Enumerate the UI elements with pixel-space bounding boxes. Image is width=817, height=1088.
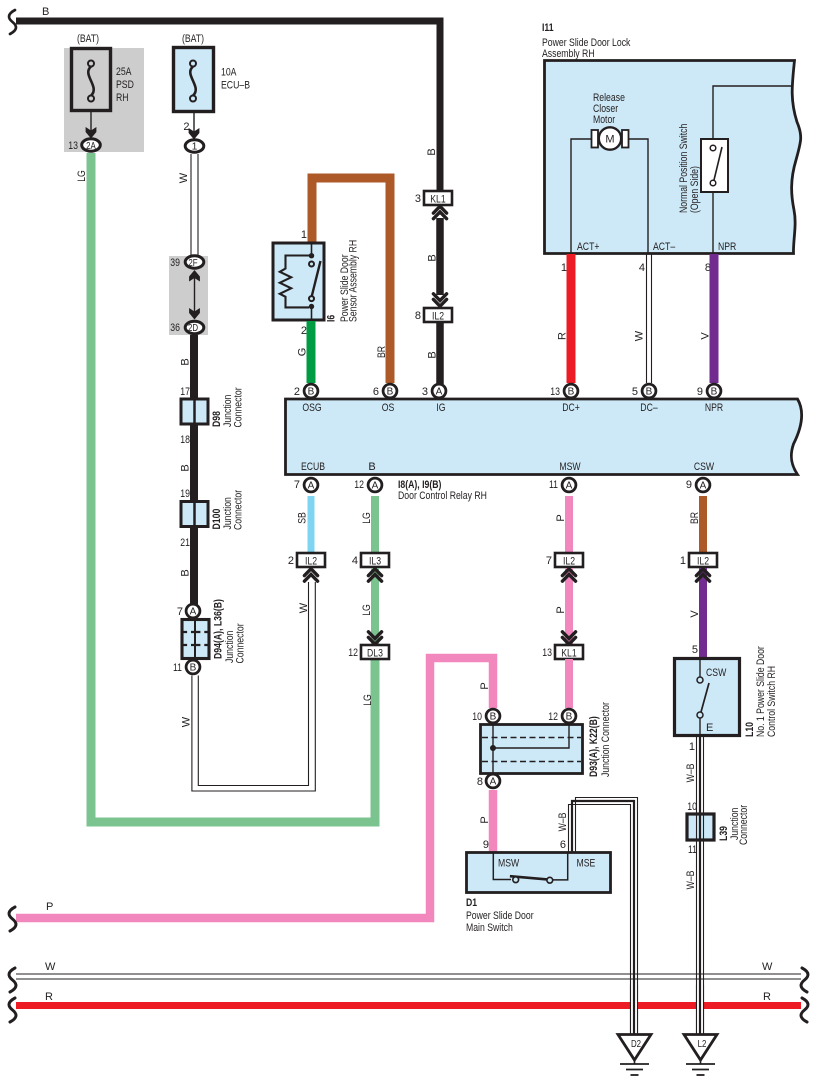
- wire P from IL2 to KL1: [555, 568, 569, 645]
- svg-text:12: 12: [548, 711, 558, 723]
- relay top pin 2 (B) OSG: [294, 384, 318, 398]
- svg-text:D1: D1: [466, 897, 477, 909]
- connector IL2 pin 1: [680, 553, 717, 568]
- normal position switch (open side): [678, 124, 728, 213]
- svg-text:MSE: MSE: [577, 858, 596, 870]
- connector pin (1): [185, 140, 204, 153]
- svg-text:W: W: [298, 602, 310, 613]
- relay top pin 9 (B) NPR: [697, 384, 721, 398]
- svg-text:NPR: NPR: [718, 241, 736, 253]
- svg-text:LG: LG: [361, 604, 373, 616]
- relay top pin 5 (B) DC-: [632, 384, 656, 398]
- svg-text:Connector: Connector: [233, 387, 245, 427]
- relay I8(A), I9(B) Door Control Relay RH: [286, 399, 802, 475]
- relay bottom pin 9 (A) CSW: [686, 478, 710, 492]
- svg-text:B: B: [711, 387, 718, 398]
- svg-text:A: A: [190, 607, 197, 618]
- junction connector L39: [687, 801, 750, 856]
- svg-text:6: 6: [560, 839, 566, 851]
- wire LG from IL3 to DL3: [361, 568, 375, 645]
- svg-text:B: B: [180, 464, 192, 471]
- switch D1 Power Slide Door Main Switch: [466, 839, 611, 934]
- pin 7 (A) of D94: [177, 604, 200, 618]
- svg-text:9: 9: [483, 839, 489, 851]
- svg-text:3: 3: [422, 386, 428, 398]
- svg-text:D94(A), L36(B): D94(A), L36(B): [213, 599, 225, 659]
- svg-text:A: A: [700, 481, 707, 492]
- svg-text:B: B: [427, 254, 439, 261]
- svg-text:Connector: Connector: [738, 805, 750, 845]
- svg-text:BR: BR: [376, 346, 388, 358]
- svg-text:Power Slide Door: Power Slide Door: [466, 910, 534, 922]
- wire BR from pin 9(A) to IL2 pin 1: [689, 496, 703, 553]
- svg-text:W: W: [45, 961, 56, 973]
- chevron pair below IL2 pin1 (pointing up): [696, 569, 709, 581]
- relay name label: [398, 479, 487, 502]
- release closer motor M: [592, 92, 629, 150]
- svg-text:11: 11: [173, 662, 182, 674]
- relay top pin 13 (B) DC+: [550, 384, 578, 398]
- svg-text:KL1: KL1: [561, 648, 577, 660]
- svg-text:1: 1: [301, 229, 307, 241]
- relay bottom pin 11 (A) MSW: [549, 478, 576, 492]
- component I11 Power Slide Door Lock Assembly RH: [542, 22, 801, 254]
- svg-text:9: 9: [686, 479, 692, 491]
- svg-text:W: W: [178, 172, 190, 183]
- svg-text:DC–: DC–: [640, 402, 658, 414]
- relay top pin 3 (A) IG: [422, 384, 446, 398]
- wire P from D93 pin 8(A) to D1 pin 9: [479, 790, 493, 852]
- junction connector D98: [180, 386, 244, 446]
- svg-text:13: 13: [68, 140, 78, 152]
- svg-text:A: A: [436, 387, 443, 398]
- svg-text:ECU–B: ECU–B: [221, 80, 250, 92]
- svg-text:13: 13: [550, 386, 560, 398]
- svg-text:6: 6: [373, 386, 379, 398]
- svg-text:V: V: [689, 610, 701, 618]
- svg-text:IL2: IL2: [697, 556, 709, 568]
- svg-text:I11: I11: [542, 22, 554, 34]
- svg-text:P: P: [479, 682, 491, 689]
- svg-text:R: R: [45, 991, 53, 1003]
- chevron pair below IL2 pin2 (pointing up): [304, 569, 317, 581]
- connector IL2 pin 8: [415, 308, 452, 323]
- svg-text:(BAT): (BAT): [182, 33, 204, 45]
- svg-text:P: P: [555, 514, 567, 521]
- wire R from I11 pin 1 to relay pin 13(B): [557, 254, 572, 383]
- wire G from I6 pin 2 to relay pin 2(B): [297, 321, 312, 383]
- svg-text:B: B: [308, 387, 315, 398]
- svg-text:B: B: [190, 663, 197, 674]
- svg-text:Sensor Assembly RH: Sensor Assembly RH: [348, 240, 360, 322]
- svg-text:IL2: IL2: [563, 556, 575, 568]
- continuation squiggle left end of R rail: [9, 998, 16, 1022]
- svg-text:1: 1: [689, 741, 695, 753]
- svg-text:DL3: DL3: [367, 648, 383, 660]
- wire P from KL1 to D93 pin 12(B): [565, 659, 573, 708]
- connector IL2 pin 2: [288, 553, 325, 568]
- svg-text:RH: RH: [116, 92, 129, 104]
- wire fuse 10A to connector 1 with arrow, pin 2: [183, 112, 199, 140]
- chevron pair below KL1 (pointing up): [433, 206, 446, 218]
- svg-text:B: B: [180, 569, 192, 576]
- wire LG from pin 12(A) to IL3 pin 4: [361, 496, 375, 553]
- chevron pair below IL3 (pointing up): [368, 569, 381, 581]
- wire B from KL1 to IL2: [427, 218, 441, 295]
- wire W (white) loop from pin 11(B) to IL2 pin 2: [181, 582, 316, 791]
- continuation squiggle left end of W rail: [9, 968, 16, 992]
- svg-text:CSW: CSW: [706, 667, 727, 679]
- svg-text:2D: 2D: [188, 323, 198, 334]
- svg-text:2A: 2A: [86, 141, 96, 152]
- relay top pin 6 (B) OS: [373, 384, 397, 398]
- svg-text:IL3: IL3: [369, 556, 381, 568]
- svg-text:1: 1: [192, 142, 198, 153]
- svg-text:B: B: [490, 712, 497, 723]
- svg-text:13: 13: [542, 647, 552, 659]
- ground L2: [684, 1035, 717, 1076]
- svg-text:4: 4: [639, 262, 645, 274]
- svg-text:A: A: [490, 777, 497, 788]
- svg-text:21: 21: [180, 537, 190, 549]
- svg-text:Junction Connector: Junction Connector: [600, 702, 612, 777]
- sensor I6 Power Slide Door Sensor Assembly RH: [273, 240, 360, 322]
- svg-text:IL2: IL2: [432, 311, 444, 323]
- D93 pin 12 (B): [548, 709, 576, 723]
- svg-text:CSW: CSW: [694, 461, 715, 473]
- svg-text:7: 7: [177, 606, 183, 618]
- svg-text:W: W: [181, 716, 193, 727]
- svg-text:10A: 10A: [221, 67, 237, 79]
- connector pin 39 (2F): [170, 256, 204, 269]
- continuation squiggle right end of R rail: [801, 998, 808, 1022]
- continuation squiggle left end of B bus: [9, 10, 16, 34]
- svg-text:8: 8: [415, 310, 421, 322]
- svg-text:B: B: [387, 387, 394, 398]
- wire B from IL2 to relay pin 3(A): [427, 322, 441, 384]
- svg-text:10: 10: [687, 801, 697, 813]
- svg-text:BR: BR: [689, 512, 701, 524]
- svg-text:B: B: [426, 148, 438, 155]
- svg-text:A: A: [308, 481, 315, 492]
- svg-text:ACT+: ACT+: [577, 241, 600, 253]
- svg-text:M: M: [605, 134, 614, 146]
- svg-text:W–B: W–B: [557, 813, 569, 832]
- svg-text:18: 18: [180, 434, 190, 446]
- svg-text:5: 5: [692, 644, 698, 656]
- svg-text:W: W: [634, 330, 646, 341]
- svg-text:5: 5: [632, 386, 638, 398]
- svg-text:R: R: [557, 332, 569, 340]
- svg-text:7: 7: [546, 555, 552, 567]
- pin 11 (B) of D94: [173, 660, 200, 674]
- svg-text:B: B: [566, 712, 573, 723]
- svg-text:12: 12: [348, 647, 358, 659]
- D93 pin 10 (B): [472, 709, 500, 723]
- wire B black from 2D down to pin 7(A): [180, 335, 195, 605]
- svg-text:E: E: [706, 722, 713, 734]
- svg-text:V: V: [700, 332, 712, 340]
- svg-text:Main Switch: Main Switch: [466, 922, 513, 934]
- svg-text:B: B: [180, 358, 192, 365]
- svg-text:B: B: [568, 387, 575, 398]
- svg-text:OSG: OSG: [302, 402, 321, 414]
- svg-text:G: G: [297, 348, 309, 357]
- svg-text:7: 7: [294, 479, 300, 491]
- svg-text:(BAT): (BAT): [77, 33, 99, 45]
- relay bottom pin 12 (A) B: [354, 478, 382, 492]
- wire R ground rail: [16, 991, 801, 1006]
- svg-text:19: 19: [180, 488, 190, 500]
- wire LG loop: fuse 2A down, across bottom, up to DL3: [76, 153, 375, 822]
- svg-text:W: W: [762, 961, 773, 973]
- connector KL1 pin 13: [542, 645, 583, 660]
- svg-text:ECUB: ECUB: [301, 461, 325, 473]
- wire P from pin 11(A) to IL2 pin 7: [555, 496, 569, 553]
- svg-text:39: 39: [170, 257, 180, 269]
- wire V from I11 pin 8 to relay pin 9(B): [700, 254, 715, 383]
- svg-text:R: R: [763, 991, 771, 1003]
- fuse 10A ECU-B: [174, 33, 251, 112]
- arrows between 2F and 2D: [189, 270, 200, 320]
- svg-text:2: 2: [294, 386, 300, 398]
- svg-text:P: P: [555, 606, 567, 613]
- svg-text:Control Switch RH: Control Switch RH: [766, 666, 778, 737]
- continuation squiggle left end of P rail: [9, 907, 16, 931]
- svg-text:Connector: Connector: [233, 490, 245, 530]
- svg-text:2: 2: [183, 121, 189, 133]
- svg-text:PSD: PSD: [116, 79, 134, 91]
- svg-text:I6: I6: [326, 315, 338, 322]
- svg-text:11: 11: [549, 479, 558, 491]
- svg-text:LG: LG: [362, 694, 374, 706]
- svg-text:Door Control Relay RH: Door Control Relay RH: [398, 490, 487, 502]
- wire W-B from L10 pin 1 to ground L2: [685, 736, 704, 1034]
- connector pin 13 (2A): [68, 139, 100, 152]
- svg-text:Connector: Connector: [235, 623, 247, 663]
- svg-text:9: 9: [697, 386, 703, 398]
- svg-text:12: 12: [354, 479, 364, 491]
- normal position switch wiring inside I11: [713, 86, 791, 254]
- svg-text:1: 1: [680, 555, 686, 567]
- svg-text:NPR: NPR: [705, 402, 723, 414]
- svg-text:B: B: [368, 461, 375, 473]
- svg-text:1: 1: [561, 262, 567, 274]
- svg-text:Motor: Motor: [593, 114, 615, 126]
- svg-text:LG: LG: [361, 512, 373, 524]
- connector DL3 pin 12: [348, 645, 389, 660]
- wire W from I11 pin 4 to relay pin 5(B): [634, 254, 652, 383]
- svg-text:B: B: [646, 387, 653, 398]
- connector KL1 pin 3 (black feed): [415, 191, 452, 206]
- svg-text:25A: 25A: [116, 66, 132, 78]
- chevron pair above IL2 (pointing down): [433, 294, 446, 306]
- svg-text:IL2: IL2: [305, 556, 317, 568]
- svg-text:OS: OS: [382, 402, 395, 414]
- junction connector D100: [180, 488, 244, 549]
- svg-text:D93(A), K22(B): D93(A), K22(B): [588, 716, 600, 777]
- svg-text:MSW: MSW: [498, 858, 520, 870]
- svg-text:4: 4: [352, 555, 358, 567]
- wire W (white) fuse 1 to 2F: [178, 154, 198, 256]
- wire W ground rail: [16, 961, 801, 979]
- svg-text:KL1: KL1: [430, 194, 446, 206]
- motor wires inside I11: [571, 139, 648, 254]
- wire P loop from D93 pin 10(B) to left edge rail: [16, 658, 493, 918]
- connector pin 36 (2D): [170, 321, 204, 334]
- relay bottom pin 7 (A) ECUB: [294, 478, 318, 492]
- svg-text:P: P: [46, 901, 53, 913]
- junction connector D94(A), L36(B): [182, 599, 247, 664]
- svg-text:A: A: [372, 481, 379, 492]
- wire W-B to D2 crossing over R rail: [631, 985, 638, 1034]
- D93 pin 8 (A): [477, 774, 500, 788]
- wire W-B from D1 MSE to ground D2: [557, 798, 638, 1035]
- svg-text:8: 8: [477, 776, 483, 788]
- svg-text:SB: SB: [297, 512, 309, 524]
- svg-text:2F: 2F: [188, 258, 197, 269]
- svg-text:A: A: [566, 481, 573, 492]
- ground D2: [618, 1035, 651, 1076]
- svg-text:W–B: W–B: [685, 871, 697, 890]
- svg-text:IG: IG: [436, 402, 445, 414]
- wire SB from pin 7(A) to IL2 pin 2: [297, 496, 312, 553]
- svg-text:11: 11: [688, 844, 697, 856]
- chevron pair above DL3 (pointing down): [368, 632, 381, 644]
- svg-text:B: B: [42, 6, 49, 18]
- svg-text:3: 3: [415, 193, 421, 205]
- svg-text:L2: L2: [698, 1039, 707, 1050]
- svg-text:D2: D2: [631, 1039, 641, 1050]
- wire B main bus (battery feed): [16, 6, 440, 191]
- chevron pair below IL2 pin7 (pointing up): [562, 569, 575, 581]
- svg-text:P: P: [479, 816, 491, 823]
- connector IL2 pin 7: [546, 553, 583, 568]
- svg-text:10: 10: [472, 711, 482, 723]
- junction connector D93(A), K22(B): [481, 702, 613, 777]
- svg-text:2: 2: [288, 555, 294, 567]
- svg-text:LG: LG: [76, 170, 88, 182]
- chevron pair above KL1 (pointing down): [562, 632, 575, 644]
- svg-text:MSW: MSW: [559, 461, 581, 473]
- continuation squiggle right end of W rail: [801, 968, 808, 992]
- wire V from IL2 pin1 to L10 pin 5: [689, 568, 703, 658]
- svg-text:17: 17: [180, 386, 190, 398]
- wire BR from I6 pin 1 to relay pin 6(B): [301, 178, 390, 383]
- svg-text:2: 2: [301, 325, 307, 337]
- gray connector block 2F/2D: [169, 256, 208, 335]
- svg-text:B: B: [427, 351, 439, 358]
- svg-text:36: 36: [170, 322, 180, 334]
- svg-text:(Open Side): (Open Side): [689, 166, 701, 213]
- svg-text:ACT–: ACT–: [653, 241, 676, 253]
- wire fuse 25A to connector 2A with arrow: [86, 111, 97, 139]
- svg-text:DC+: DC+: [562, 402, 580, 414]
- svg-text:Assembly RH: Assembly RH: [542, 48, 595, 60]
- switch L10 No. 1 Power Slide Door Control Switch RH: [675, 646, 779, 737]
- connector IL3 pin 4: [352, 553, 389, 568]
- I11 terminal labels: [577, 241, 736, 253]
- wire W-B to L2 crossing over R rail: [697, 985, 704, 1034]
- fuse 25A PSD RH (gray block): [64, 33, 144, 152]
- svg-text:W–B: W–B: [685, 764, 697, 783]
